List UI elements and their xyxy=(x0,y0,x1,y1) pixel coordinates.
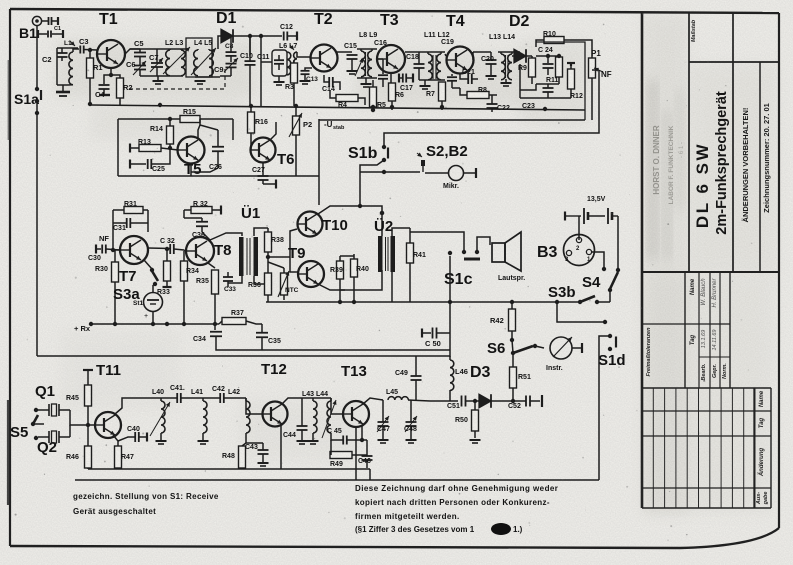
coil L45 xyxy=(386,389,408,400)
note Diese Zeichnung xyxy=(355,484,558,535)
RF out line xyxy=(430,400,458,402)
coil L41 xyxy=(191,389,209,444)
capacitor C27 xyxy=(252,167,276,189)
capacitor C31 xyxy=(113,218,148,232)
transistor T4 xyxy=(441,13,474,74)
switch S4 xyxy=(582,268,620,302)
revision column labels xyxy=(756,390,769,505)
capacitor C13 xyxy=(300,68,319,84)
variable capacitor C9 xyxy=(214,58,238,76)
capacitor C11 xyxy=(257,54,284,70)
transistor T8 xyxy=(184,237,232,265)
capacitor C23 xyxy=(522,84,559,110)
switch S3a xyxy=(113,260,158,303)
tank L13 L14 xyxy=(473,34,520,86)
resistor R14 xyxy=(150,117,174,150)
wire T1 collector to tank xyxy=(125,49,140,54)
resistor R41 xyxy=(407,228,426,302)
capacitor C49 xyxy=(395,356,422,401)
left frame scan blob xyxy=(7,60,11,505)
title text DL 6 SW xyxy=(693,142,712,228)
resistor R49 xyxy=(330,440,362,468)
title block grid xyxy=(642,13,779,508)
capacitor C33 xyxy=(223,272,236,293)
NF input C30 xyxy=(88,234,120,262)
resistor R46 xyxy=(66,425,92,469)
capacitor C51 xyxy=(447,396,477,411)
resistor R15 xyxy=(180,109,200,123)
wire B3 pin1 to S4 xyxy=(591,252,606,271)
resistor R7 xyxy=(426,82,446,110)
transistor T2 xyxy=(311,11,338,72)
capacitor C32 xyxy=(148,238,184,254)
wire T5 box to bus xyxy=(232,119,234,140)
transistor T6 xyxy=(251,122,295,176)
capacitor C4 xyxy=(95,68,113,99)
transistor T10 xyxy=(298,212,348,237)
capacitor C22 xyxy=(487,95,510,112)
T5 box xyxy=(118,119,319,176)
output box wires xyxy=(319,42,592,120)
resistor R5 xyxy=(370,80,387,112)
capacitor C12 xyxy=(250,24,297,41)
capacitor C45 xyxy=(327,428,362,445)
ground rail mid xyxy=(216,344,450,350)
capacitor C3 xyxy=(73,37,97,54)
pushbutton S2 xyxy=(417,143,468,172)
coil L42 xyxy=(228,389,250,443)
capacitor C17 xyxy=(399,74,413,93)
switch S1c xyxy=(410,232,480,288)
stub below S3b xyxy=(555,300,607,324)
switch S5 xyxy=(10,408,44,441)
transistor T3 xyxy=(374,12,405,73)
resistor R8 xyxy=(460,87,497,99)
antenna jack B1 xyxy=(19,16,42,41)
transformer U1 xyxy=(210,205,268,284)
resistor R6 xyxy=(389,73,405,110)
capacitor C40 xyxy=(118,426,147,442)
resistor R4 xyxy=(330,90,365,109)
resistor R33 xyxy=(157,247,172,296)
transistor T9 xyxy=(288,245,324,287)
potentiometer P1 xyxy=(589,49,612,84)
capacitor C21 xyxy=(460,69,478,84)
tank C5 C6 C7 L2 L3 xyxy=(126,39,190,84)
resistor R38 xyxy=(265,228,284,262)
tank L4 L5 xyxy=(186,38,220,84)
resistor R12 xyxy=(567,63,583,100)
resistor R51 xyxy=(510,353,531,401)
T11 collector wire xyxy=(115,398,161,414)
capacitor C16 xyxy=(377,59,388,87)
transistor T11 xyxy=(70,362,121,438)
T13 collector wire out xyxy=(363,398,383,404)
resistor R1 xyxy=(87,48,103,106)
NF wire from P1 to S1b xyxy=(384,70,599,146)
T13 emitter wire xyxy=(356,425,364,480)
resistor R36 xyxy=(248,262,272,302)
title text Zeichnungsnummer xyxy=(762,103,771,213)
resistor R45 xyxy=(66,370,93,427)
capacitor C46 xyxy=(358,440,373,468)
note gezeichn xyxy=(73,492,219,516)
resistor R40 xyxy=(340,254,369,304)
T9 T10 collector wires xyxy=(318,206,384,290)
microphone Mikr xyxy=(425,166,476,191)
capacitor C14 xyxy=(322,75,340,93)
capacitor C1 xyxy=(38,17,63,38)
crystal Q1 xyxy=(35,383,70,416)
wire S1c pole down xyxy=(449,256,451,357)
Freimasstoleranzen label xyxy=(646,327,652,377)
battery cell St1 xyxy=(133,285,163,324)
resistor R47 xyxy=(113,435,134,468)
resistor R2 xyxy=(111,75,133,105)
switch S1b xyxy=(348,145,388,208)
title text Aenderungen vorbehalten xyxy=(741,108,750,223)
lower box top line xyxy=(37,355,450,357)
transistor T12 xyxy=(246,361,288,427)
tank can L6 L7 xyxy=(261,43,310,85)
capacitor C52 xyxy=(508,395,542,410)
stamp text xyxy=(652,125,685,204)
capacitor C41 xyxy=(161,385,203,403)
capacitor C26 xyxy=(191,125,224,172)
resistor R39 xyxy=(330,256,344,304)
wire to S2 xyxy=(360,170,420,174)
resistor R42 xyxy=(490,302,516,342)
electrolytic C34 xyxy=(193,324,222,344)
coils L43 L44 xyxy=(302,391,336,444)
crystal Q2 xyxy=(37,431,70,456)
capacitor C15 xyxy=(337,43,358,74)
bus +Rx rail xyxy=(74,322,219,333)
capacitor C10 xyxy=(240,34,256,106)
diode D1 xyxy=(216,10,250,55)
capacitor C25 xyxy=(130,148,170,173)
switch S1a xyxy=(14,87,41,115)
resistor R48 xyxy=(222,443,246,468)
transformer U2 xyxy=(374,211,410,302)
wire C12 junction down xyxy=(260,36,262,106)
tank L8 L9 xyxy=(355,32,377,87)
title text 2m-Funksprechgeraet xyxy=(714,91,730,235)
oscillator dashed box xyxy=(129,66,225,89)
electrolytic C35 xyxy=(256,324,281,345)
input tank L1 C2 xyxy=(42,40,78,96)
names table text xyxy=(690,277,728,380)
resistor R37 xyxy=(219,310,262,325)
variable capacitor C48 xyxy=(404,400,430,443)
capacitor C36 xyxy=(184,218,210,240)
transistor T5 xyxy=(178,119,205,178)
title text Masstab xyxy=(691,19,697,42)
main supply bus xyxy=(88,102,585,111)
transistor T7 xyxy=(111,235,148,285)
lower box right and bottom xyxy=(75,469,599,480)
connector B3 xyxy=(537,235,595,266)
tank L10 C18 xyxy=(405,32,450,89)
capacitor C24 xyxy=(536,47,554,75)
T12 collector wire xyxy=(281,398,313,469)
switch S1d xyxy=(598,334,626,480)
capacitor C19b xyxy=(447,74,460,88)
capacitor C42 xyxy=(203,386,246,403)
capacitor C50 xyxy=(422,328,450,349)
battery 13.5V xyxy=(565,196,618,269)
wire B1 to S1a xyxy=(36,26,38,87)
push-pull drive wires xyxy=(268,229,298,272)
transistor T1 xyxy=(97,11,125,68)
resistor R16 xyxy=(248,106,268,150)
resistor R32 xyxy=(184,201,221,218)
capacitor C44 xyxy=(283,398,308,444)
resistor R50 xyxy=(455,401,481,443)
variable capacitor C47 xyxy=(377,400,390,443)
coil L40 xyxy=(150,389,170,444)
switch S3b xyxy=(548,284,610,304)
coil L46 xyxy=(450,356,468,401)
resistor R34 xyxy=(181,251,199,324)
stamp smudges xyxy=(648,80,684,260)
capacitor C20 xyxy=(481,52,497,79)
thermistor NTC xyxy=(278,268,299,300)
diode D2 xyxy=(509,13,532,63)
loudspeaker xyxy=(477,232,525,282)
Ustab label box xyxy=(319,119,345,205)
potentiometer P2 xyxy=(289,106,312,176)
meter Instr xyxy=(535,337,582,372)
resistor R3 xyxy=(285,60,298,106)
resistor R9 xyxy=(518,56,536,84)
resistor R10 xyxy=(536,31,592,58)
resistor R31 feedback xyxy=(113,201,148,235)
resistor R13 xyxy=(130,139,178,153)
capacitor C8 xyxy=(225,36,237,62)
wire S1a down to lower section xyxy=(36,113,38,356)
transistor T13 xyxy=(331,363,369,427)
diode D3 xyxy=(470,364,515,408)
switch S6 xyxy=(487,340,537,357)
main bus middle xyxy=(266,300,580,304)
resistor R11 xyxy=(546,54,563,84)
capacitor C43 xyxy=(245,443,269,466)
resistor R35 xyxy=(196,263,219,324)
resistor R30 xyxy=(95,250,119,324)
